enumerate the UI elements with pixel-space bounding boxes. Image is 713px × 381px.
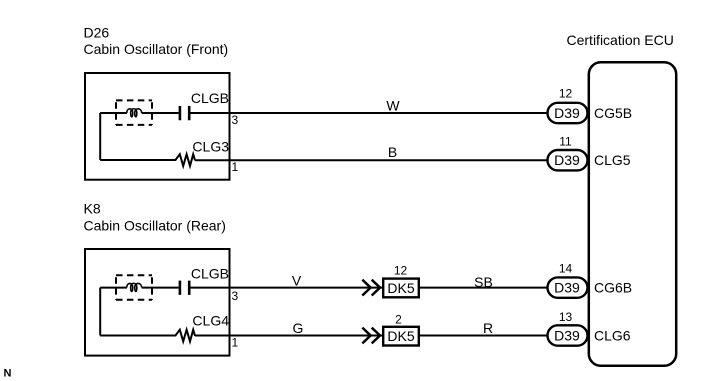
svg-text:14: 14	[559, 261, 573, 275]
svg-text:Cabin Oscillator (Front): Cabin Oscillator (Front)	[84, 41, 229, 57]
svg-text:D39: D39	[554, 328, 580, 344]
connector DK5 (row G)	[383, 327, 419, 346]
connector D39 pin 13	[548, 325, 588, 345]
svg-text:CLG3: CLG3	[192, 139, 229, 155]
svg-text:DK5: DK5	[387, 328, 414, 344]
capacitor (front)	[180, 106, 189, 120]
wire internal left vertical (rear)	[99, 288, 101, 336]
wire G	[195, 335, 383, 337]
svg-text:D39: D39	[554, 152, 580, 168]
svg-text:1: 1	[232, 160, 239, 174]
svg-text:R: R	[483, 320, 493, 336]
svg-text:CG6B: CG6B	[594, 280, 632, 296]
inductor (rear)	[127, 283, 142, 291]
svg-text:CLG5: CLG5	[594, 152, 631, 168]
svg-text:W: W	[386, 97, 400, 113]
wire SB	[420, 287, 547, 289]
wire W	[191, 112, 547, 114]
svg-text:N: N	[4, 367, 12, 379]
svg-text:V: V	[292, 273, 302, 289]
wire internal top segment to capacitor (rear)	[100, 287, 178, 289]
svg-text:Cabin Oscillator (Rear): Cabin Oscillator (Rear)	[84, 218, 226, 234]
svg-text:12: 12	[394, 264, 408, 278]
svg-text:2: 2	[395, 313, 402, 327]
resistor CLG4	[100, 330, 195, 342]
connector DK5 (row V)	[383, 279, 419, 298]
svg-text:D39: D39	[554, 105, 580, 121]
svg-text:DK5: DK5	[387, 280, 414, 296]
svg-text:G: G	[293, 320, 304, 336]
ECU box	[589, 62, 676, 366]
svg-text:11: 11	[559, 134, 572, 148]
svg-text:CLGB: CLGB	[191, 90, 229, 106]
svg-text:CLGB: CLGB	[191, 265, 229, 281]
chevrons junction (row V)	[362, 280, 380, 296]
wire B	[195, 159, 547, 161]
svg-text:SB: SB	[474, 274, 493, 290]
dashed core box (rear)	[116, 275, 152, 299]
component box K8 Cabin Oscillator (Rear)	[85, 249, 230, 356]
connector D39 pin 14	[548, 277, 588, 297]
svg-text:3: 3	[232, 113, 239, 127]
svg-text:12: 12	[559, 86, 573, 100]
svg-text:K8: K8	[84, 201, 101, 217]
svg-text:1: 1	[232, 335, 239, 349]
svg-text:D39: D39	[554, 280, 580, 296]
wire internal top segment to capacitor (front)	[100, 112, 178, 114]
svg-text:CLG4: CLG4	[192, 312, 229, 328]
resistor CLG3	[100, 154, 195, 166]
wire V	[191, 287, 384, 289]
svg-text:3: 3	[232, 289, 239, 303]
connector D39 pin 11	[548, 150, 588, 170]
connector D39 pin 12	[548, 103, 588, 123]
component box D26 Cabin Oscillator (Front)	[85, 73, 230, 180]
svg-text:B: B	[388, 144, 397, 160]
dashed core box (front)	[116, 100, 152, 125]
svg-text:13: 13	[559, 310, 573, 324]
svg-text:Certification ECU: Certification ECU	[567, 32, 674, 48]
capacitor (rear)	[180, 281, 189, 295]
wire R	[420, 335, 547, 337]
inductor (front)	[127, 109, 142, 117]
svg-text:D26: D26	[84, 25, 110, 41]
wire internal left vertical (front)	[99, 113, 101, 160]
svg-text:CLG6: CLG6	[594, 328, 631, 344]
svg-text:CG5B: CG5B	[594, 105, 632, 121]
chevrons junction (row G)	[362, 328, 380, 344]
